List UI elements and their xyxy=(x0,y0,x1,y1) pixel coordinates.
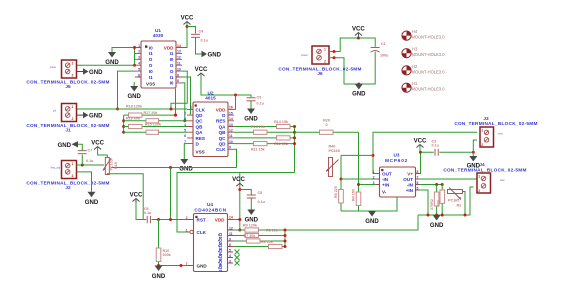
svg-text:220: 220 xyxy=(437,200,441,206)
junction xyxy=(419,151,422,154)
no-connect Q5 xyxy=(235,250,240,255)
svg-text:0.1u: 0.1u xyxy=(144,211,152,215)
svg-text:QB: QB xyxy=(219,130,227,135)
svg-text:saw: saw xyxy=(500,179,505,182)
svg-text:VCC: VCC xyxy=(181,16,194,22)
wire U4 VDD stub xyxy=(233,219,240,221)
svg-text:1: 1 xyxy=(373,170,375,174)
svg-text:MOUNT-HOLE3.0: MOUNT-HOLE3.0 xyxy=(412,87,446,92)
resistor R20 0 xyxy=(295,119,359,135)
svg-text:V-: V- xyxy=(382,190,387,195)
svg-text:pulse: pulse xyxy=(50,65,57,69)
svg-text:R18 120k: R18 120k xyxy=(126,105,143,109)
svg-text:6: 6 xyxy=(184,134,186,138)
ground (C4) xyxy=(202,51,222,59)
svg-text:7: 7 xyxy=(417,175,419,179)
svg-text:GND: GND xyxy=(365,219,379,225)
svg-text:2: 2 xyxy=(324,60,326,64)
junction xyxy=(170,108,173,111)
junction xyxy=(293,142,296,145)
junction xyxy=(472,151,475,154)
wire pot R40 top to node xyxy=(341,154,373,156)
svg-text:100k: 100k xyxy=(163,253,172,257)
svg-text:+IN: +IN xyxy=(406,188,414,193)
wire VCC to R19 top xyxy=(98,148,108,158)
junction xyxy=(441,214,444,217)
no-connect Q6 xyxy=(235,255,240,260)
svg-text:R14 15k: R14 15k xyxy=(274,120,289,124)
junction xyxy=(357,37,360,40)
wire ladder bus vertical xyxy=(123,115,125,132)
svg-text:I0: I0 xyxy=(170,57,174,62)
svg-text:0.1u: 0.1u xyxy=(86,159,94,163)
junction xyxy=(186,25,189,28)
wire output column U4 xyxy=(284,230,286,247)
svg-text:1: 1 xyxy=(481,129,483,133)
svg-text:VSS: VSS xyxy=(146,82,155,87)
svg-text:1: 1 xyxy=(190,106,192,110)
svg-text:J6: J6 xyxy=(317,71,323,76)
wire C3 to ground xyxy=(250,101,252,109)
svg-text:VCC: VCC xyxy=(414,139,427,145)
svg-text:QA: QA xyxy=(219,124,227,129)
svg-text:4015: 4015 xyxy=(205,96,216,101)
svg-text:5: 5 xyxy=(229,248,231,252)
svg-text:2: 2 xyxy=(184,111,186,115)
junction xyxy=(174,114,177,117)
resistor R (ladder QA leg) xyxy=(124,130,187,134)
no-connect Q7 xyxy=(235,261,240,266)
wire U3 -IN to R5/pot xyxy=(341,178,376,180)
svg-text:0.1u: 0.1u xyxy=(201,39,209,43)
svg-text:1: 1 xyxy=(138,44,140,48)
svg-text:0.1u: 0.1u xyxy=(432,144,440,148)
svg-text:freq_adj: freq_adj xyxy=(51,166,61,170)
svg-text:CLK: CLK xyxy=(197,230,207,235)
trimmer R40 PC165 xyxy=(326,145,341,179)
svg-text:MOUNT-HOLE3.0: MOUNT-HOLE3.0 xyxy=(412,35,446,40)
svg-text:VCC: VCC xyxy=(91,141,104,147)
power VCC (above U2) xyxy=(195,67,208,76)
svg-text:I1: I1 xyxy=(149,75,153,80)
junction xyxy=(133,46,136,49)
junction xyxy=(116,108,119,111)
svg-text:11: 11 xyxy=(229,134,233,138)
junction xyxy=(293,136,296,139)
wire J6 pin1 to VCC xyxy=(329,38,375,52)
resistor R2 220 xyxy=(437,185,445,216)
ground (J1 pin2) xyxy=(77,112,104,120)
junction xyxy=(169,166,172,169)
svg-text:10: 10 xyxy=(177,67,181,71)
svg-text:2: 2 xyxy=(72,74,74,78)
svg-text:2: 2 xyxy=(481,143,483,147)
junction xyxy=(435,183,438,186)
svg-text:I1: I1 xyxy=(149,51,153,56)
ground (U3) xyxy=(365,211,379,225)
junction xyxy=(183,119,186,122)
ground (J5 pin2) xyxy=(77,68,104,76)
svg-text:C3: C3 xyxy=(257,96,262,100)
svg-text:O: O xyxy=(170,69,174,74)
svg-text:VDD: VDD xyxy=(216,107,226,112)
svg-text:U4: U4 xyxy=(207,202,213,207)
svg-text:PC103: PC103 xyxy=(110,159,114,170)
svg-text:1: 1 xyxy=(72,105,74,109)
svg-text:2: 2 xyxy=(138,50,140,54)
resistor R3 370R2 xyxy=(430,185,439,216)
trimmer R19 PC103 xyxy=(103,158,118,175)
svg-text:12: 12 xyxy=(177,56,181,60)
power VCC (J6) xyxy=(352,27,365,39)
svg-text:8: 8 xyxy=(417,170,419,174)
terminal block J4 xyxy=(443,162,526,193)
svg-text:OUT: OUT xyxy=(403,177,413,182)
svg-text:GND: GND xyxy=(208,53,222,59)
svg-text:V+: V+ xyxy=(407,172,413,177)
junction xyxy=(293,125,296,128)
svg-text:QC: QC xyxy=(219,136,227,141)
svg-text:9: 9 xyxy=(229,146,231,150)
power VCC (R19) xyxy=(91,141,104,150)
svg-text:J2: J2 xyxy=(65,185,71,190)
resistor R6 15k xyxy=(233,240,285,248)
capacitor C1 100u xyxy=(371,42,389,58)
svg-text:100u: 100u xyxy=(380,54,389,58)
svg-text:QD: QD xyxy=(196,113,204,118)
svg-text:0.1u: 0.1u xyxy=(257,101,265,105)
svg-text:VCC: VCC xyxy=(232,177,245,183)
junction xyxy=(357,183,360,186)
resistor R17 20k xyxy=(124,111,176,117)
svg-text:3: 3 xyxy=(138,56,140,60)
svg-text:4030: 4030 xyxy=(153,33,164,38)
svg-text:I1: I1 xyxy=(170,75,174,80)
wire J6 pin2 to ground rail xyxy=(329,52,375,84)
wire ground rail U3 xyxy=(341,197,397,211)
power VCC (U4 VDD) xyxy=(232,177,245,186)
svg-text:R17 20k: R17 20k xyxy=(144,111,159,115)
wire U2 CLK9 down xyxy=(234,149,237,167)
svg-text:-IN: -IN xyxy=(407,183,414,188)
junction xyxy=(180,264,183,267)
trimmer R1 PC165 xyxy=(448,188,466,216)
svg-text:O: O xyxy=(149,57,153,62)
svg-text:R5 220: R5 220 xyxy=(334,186,338,198)
svg-text:13: 13 xyxy=(229,123,233,127)
svg-text:5: 5 xyxy=(138,67,140,71)
svg-text:CON_TERMINAL_BLOCK_02-5MM: CON_TERMINAL_BLOCK_02-5MM xyxy=(443,168,526,173)
svg-text:GND: GND xyxy=(89,114,103,120)
power VCC (U3) xyxy=(414,139,427,148)
svg-text:R4 150: R4 150 xyxy=(352,189,356,201)
svg-text:CLK: CLK xyxy=(216,147,226,152)
svg-text:12: 12 xyxy=(229,226,233,230)
svg-text:3: 3 xyxy=(229,259,231,263)
junction xyxy=(238,218,241,221)
resistor R15 120k xyxy=(124,122,187,128)
resistor R10 100k xyxy=(156,220,171,266)
junction xyxy=(333,50,336,53)
capacitor C4 0.1u xyxy=(191,30,209,43)
capacitor C2 0.1u xyxy=(421,140,474,156)
wire pot bottom to C6 xyxy=(107,174,143,220)
svg-text:I0: I0 xyxy=(170,81,174,86)
svg-text:-IN: -IN xyxy=(382,177,389,182)
junction xyxy=(174,114,177,117)
svg-text:0.1u: 0.1u xyxy=(258,200,266,204)
ground (C5) xyxy=(245,198,259,224)
svg-text:GND: GND xyxy=(127,94,141,100)
svg-text:13: 13 xyxy=(177,50,181,54)
svg-text:C7: C7 xyxy=(88,148,93,152)
svg-text:MOUNT-HOLE3.0: MOUNT-HOLE3.0 xyxy=(412,69,446,74)
svg-text:C5: C5 xyxy=(258,191,263,195)
svg-text:GND: GND xyxy=(430,223,444,229)
resistor R16 60k xyxy=(124,117,187,123)
wire J3 pin2 down xyxy=(473,140,477,152)
wire U3 OUT to J4 pin1 xyxy=(420,178,478,180)
svg-text:U3: U3 xyxy=(394,153,400,158)
svg-text:QB: QB xyxy=(196,124,204,129)
wire VCC down to V+ xyxy=(420,146,421,174)
junction xyxy=(234,94,237,97)
svg-text:CLK: CLK xyxy=(196,107,206,112)
svg-text:PC165: PC165 xyxy=(448,199,459,203)
svg-text:I1: I1 xyxy=(170,51,174,56)
junction xyxy=(284,240,287,243)
wire to U4 RST branch xyxy=(170,168,172,220)
wire U3 +IN to R4 xyxy=(359,132,376,190)
resistor R12 60k xyxy=(234,136,295,146)
svg-text:sine: sine xyxy=(498,132,503,136)
wire U2 VDD up xyxy=(234,95,236,109)
svg-text:+IN: +IN xyxy=(382,183,390,188)
svg-text:J4: J4 xyxy=(479,162,485,167)
svg-text:OUT: OUT xyxy=(382,172,392,177)
junction xyxy=(284,245,287,248)
mount hole H4 xyxy=(402,29,445,40)
svg-text:11: 11 xyxy=(229,232,233,236)
svg-text:14: 14 xyxy=(177,44,181,48)
junction xyxy=(427,214,430,217)
junction xyxy=(340,178,343,181)
wire U1 pin5 down to J1 net xyxy=(118,71,136,109)
ground (U1 VSS) xyxy=(127,83,141,100)
svg-text:VSS: VSS xyxy=(196,150,205,155)
junction xyxy=(284,234,287,237)
wire middle bus to pot R19 xyxy=(111,167,237,169)
svg-text:R7 30k: R7 30k xyxy=(244,234,257,238)
svg-text:QD: QD xyxy=(219,142,227,147)
power VCC (above U1) xyxy=(181,16,194,25)
svg-text:H2: H2 xyxy=(412,64,418,69)
svg-text:VDD: VDD xyxy=(215,218,225,223)
junction xyxy=(435,214,438,217)
svg-text:2: 2 xyxy=(478,189,480,193)
ground (R10/U4) xyxy=(152,266,166,281)
terminal block J6 xyxy=(278,46,361,76)
wire bottom ground rail xyxy=(418,187,474,215)
svg-text:GND: GND xyxy=(244,117,258,123)
svg-text:2: 2 xyxy=(72,174,74,178)
svg-text:I0: I0 xyxy=(149,45,153,50)
wire VCC branch to C4 xyxy=(187,27,196,34)
capacitor C5 0.1u xyxy=(240,190,266,205)
wire U4 Q1 long run to rail xyxy=(285,215,418,230)
svg-text:1: 1 xyxy=(478,175,480,179)
wire J5 to U1 pin4 xyxy=(77,64,136,66)
wire U1 pin10 to U2 QD xyxy=(171,71,187,109)
wire U3 +IN down to rail xyxy=(420,190,429,215)
junction xyxy=(157,218,160,221)
svg-text:0: 0 xyxy=(325,123,327,127)
svg-text:R1: R1 xyxy=(457,204,462,208)
resistor R13 20k xyxy=(234,125,295,134)
svg-text:14: 14 xyxy=(229,117,233,121)
junction xyxy=(293,131,296,134)
svg-text:9: 9 xyxy=(177,73,179,77)
svg-text:VDD: VDD xyxy=(164,45,174,50)
svg-text:QA: QA xyxy=(196,130,204,135)
ground (output rail) xyxy=(430,215,444,229)
mount hole H2 xyxy=(402,64,445,75)
svg-text:RES: RES xyxy=(196,136,205,141)
junction xyxy=(238,229,241,232)
wire U1 pin9 down xyxy=(182,77,191,115)
svg-text:R8 10k: R8 10k xyxy=(266,229,279,233)
svg-text:R19: R19 xyxy=(114,162,118,169)
svg-text:6: 6 xyxy=(417,181,419,185)
wire VCC stub xyxy=(136,203,143,220)
junction xyxy=(157,264,160,267)
IC U1 4030 xyxy=(135,28,182,88)
ground (J6) xyxy=(352,84,366,98)
svg-text:GND: GND xyxy=(152,274,166,280)
wire VCC to U1 VDD xyxy=(182,23,187,48)
svg-text:GND: GND xyxy=(352,92,366,98)
svg-text:1: 1 xyxy=(72,162,74,166)
capacitor C3 0.1u xyxy=(247,96,265,106)
svg-text:PC165: PC165 xyxy=(329,149,340,153)
svg-text:1: 1 xyxy=(324,48,326,52)
terminal block J5 xyxy=(26,60,109,89)
svg-text:4: 4 xyxy=(229,254,231,258)
terminal block J3 xyxy=(454,116,537,147)
resistor R14 15k xyxy=(234,120,295,129)
svg-text:R20: R20 xyxy=(323,119,330,123)
wire U4 CLK up to bus xyxy=(177,173,295,233)
junction xyxy=(372,154,375,157)
svg-text:1: 1 xyxy=(72,62,74,66)
svg-text:16: 16 xyxy=(229,106,233,110)
svg-text:H3: H3 xyxy=(412,47,418,52)
junction xyxy=(122,119,125,122)
svg-text:GND: GND xyxy=(58,143,72,149)
resistor R18 (label on net) xyxy=(126,105,143,109)
svg-text:R9 120k: R9 120k xyxy=(243,223,258,227)
junction xyxy=(122,131,125,134)
terminal block J2 xyxy=(26,161,109,191)
svg-text:CD4024BCN: CD4024BCN xyxy=(194,208,226,213)
svg-text:GND: GND xyxy=(197,264,208,269)
svg-text:15: 15 xyxy=(229,111,233,115)
wire VDD net vertical xyxy=(239,173,241,231)
svg-text:6: 6 xyxy=(229,243,231,247)
svg-text:Q7: Q7 xyxy=(218,266,223,273)
ground (J2 pin2) xyxy=(85,192,99,206)
svg-text:12: 12 xyxy=(229,129,233,133)
svg-text:370R2: 370R2 xyxy=(430,199,434,210)
resistor R7 30k xyxy=(233,234,285,243)
wire C4 to ground xyxy=(196,37,202,54)
svg-text:QC: QC xyxy=(196,119,204,124)
svg-text:2: 2 xyxy=(72,117,74,121)
junction xyxy=(441,183,444,186)
resistor R4 150 xyxy=(352,189,361,211)
svg-text:GND: GND xyxy=(85,200,99,206)
svg-text:power: power xyxy=(301,53,308,57)
ground (C7) xyxy=(58,141,83,151)
svg-text:I0: I0 xyxy=(149,69,153,74)
svg-text:VCC: VCC xyxy=(352,27,365,33)
junction xyxy=(133,64,136,67)
capacitor C6 0.1u xyxy=(143,207,188,223)
wire U3 -IN right to divider xyxy=(420,184,443,186)
svg-text:11: 11 xyxy=(177,62,181,66)
ground (C2 / J3 pin2) xyxy=(467,152,481,169)
junction xyxy=(464,214,467,217)
junction xyxy=(284,229,287,232)
svg-text:MCP602: MCP602 xyxy=(385,158,408,163)
wire J2 pin1 to pot R19 xyxy=(77,164,105,166)
ground (U2 VSS) xyxy=(179,144,193,173)
svg-text:VCC: VCC xyxy=(130,193,143,199)
mount hole H3 xyxy=(402,47,445,58)
junction xyxy=(122,125,125,128)
svg-text:H4: H4 xyxy=(412,29,418,34)
resistor R5 220 xyxy=(334,179,343,211)
svg-text:VCC: VCC xyxy=(195,67,208,73)
svg-text:9: 9 xyxy=(229,237,231,241)
svg-text:R11 15k: R11 15k xyxy=(251,147,266,151)
svg-text:R15 120k: R15 120k xyxy=(145,122,162,126)
svg-text:6: 6 xyxy=(138,73,140,77)
wire R10 to U4 GND pin xyxy=(159,265,189,267)
svg-text:8: 8 xyxy=(177,79,179,83)
svg-text:RES: RES xyxy=(216,119,225,124)
svg-text:14: 14 xyxy=(229,216,233,220)
wire J1 to U2 CLK xyxy=(77,108,188,110)
svg-text:GND: GND xyxy=(89,70,103,76)
svg-text:R16 60k: R16 60k xyxy=(126,117,141,121)
junction xyxy=(333,56,336,59)
wire DAC summing node xyxy=(294,127,296,173)
svg-text:J1: J1 xyxy=(65,128,71,133)
svg-text:5: 5 xyxy=(417,186,419,190)
svg-text:C1: C1 xyxy=(381,42,386,46)
svg-text:4: 4 xyxy=(138,62,140,66)
svg-text:CON_TERMINAL_BLOCK_02-5MM: CON_TERMINAL_BLOCK_02-5MM xyxy=(454,121,537,126)
svg-text:R6 15k: R6 15k xyxy=(261,240,274,244)
IC U4 CD4024BCN xyxy=(186,202,233,272)
junction xyxy=(169,218,172,221)
wire J2 pin2 to ground xyxy=(77,172,92,192)
ground (left of U1) xyxy=(105,52,119,66)
wire VCC rail to C3 xyxy=(201,74,251,97)
capacitor C7 0.1u xyxy=(78,148,94,165)
resistor R11 15k xyxy=(234,142,295,152)
